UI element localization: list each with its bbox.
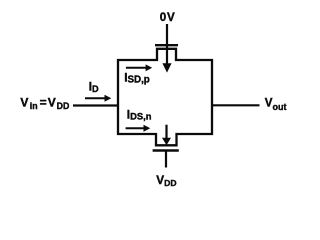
svg-text:0V: 0V <box>160 11 175 24</box>
svg-text:ID: ID <box>89 82 99 94</box>
svg-text:IDS,n: IDS,n <box>127 108 152 122</box>
